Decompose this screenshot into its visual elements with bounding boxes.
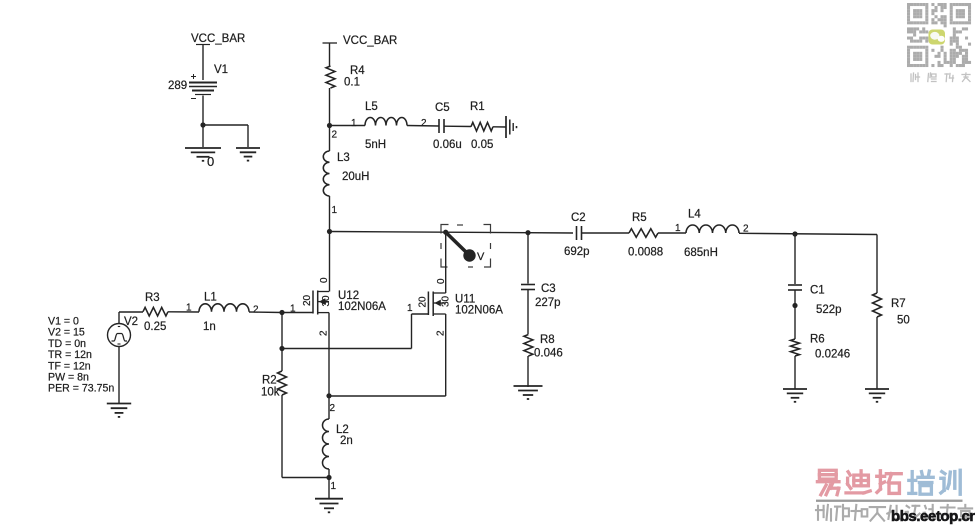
- ground (below R8): [514, 386, 543, 399]
- inductor L2: [323, 419, 330, 469]
- watermark WeChat icon: [929, 30, 946, 45]
- svg-text:V1: V1: [214, 64, 228, 76]
- capacitor C3: [521, 284, 535, 286]
- wire R5 to L4: [658, 232, 686, 234]
- wire V2 to corner: [118, 312, 120, 324]
- resistor R7: [873, 293, 882, 317]
- svg-text:C3: C3: [541, 283, 556, 295]
- svg-text:TR = 12n: TR = 12n: [48, 349, 92, 361]
- svg-text:PER = 73.75n: PER = 73.75n: [48, 383, 114, 395]
- svg-text:C2: C2: [571, 212, 586, 224]
- wire C1 to R6: [794, 291, 796, 306]
- ground (below R7): [865, 389, 889, 402]
- svg-text:0.25: 0.25: [144, 321, 166, 333]
- resistor R6: [791, 339, 800, 356]
- svg-text:692p: 692p: [564, 246, 590, 258]
- wire right ground drop: [247, 125, 249, 147]
- resistor R8: [524, 335, 533, 357]
- svg-text:R8: R8: [540, 334, 555, 346]
- svg-text:R6: R6: [810, 334, 825, 346]
- wire L1 to gate junction: [249, 311, 282, 314]
- transistor U11 (NMOS): [428, 292, 445, 317]
- svg-text:0.0088: 0.0088: [628, 247, 663, 259]
- junction rail/C3 branch: [525, 230, 530, 235]
- junction source node (U12/U11/L2): [326, 393, 331, 398]
- wire main rail left segment: [330, 232, 574, 234]
- wire rail to C1: [794, 234, 796, 284]
- watermark text: wei xin lian xi: [911, 73, 920, 82]
- svg-text:bbs.eetop.cn: bbs.eetop.cn: [891, 508, 975, 525]
- junction probe/U11 drain: [443, 230, 448, 235]
- wire U11 source: [445, 314, 447, 396]
- wire C5 to R1: [444, 125, 471, 127]
- battery V1 minus mark: [191, 98, 196, 100]
- svg-text:L4: L4: [688, 209, 701, 221]
- svg-text:2: 2: [436, 330, 447, 336]
- wire R1 to ground: [493, 126, 506, 128]
- value block: V2 pulse parameters: [48, 316, 114, 395]
- wire R7 to ground: [876, 317, 878, 389]
- svg-text:10k: 10k: [261, 387, 280, 399]
- svg-text:C1: C1: [810, 285, 825, 297]
- transistor U12 (NMOS): [313, 291, 329, 315]
- svg-text:VCC_BAR: VCC_BAR: [343, 35, 397, 47]
- svg-text:C5: C5: [435, 102, 450, 114]
- junction R4/L5/L3 node: [327, 123, 332, 128]
- wire VCC_BAR tick (R4 branch): [323, 42, 338, 44]
- wire VCC_BAR label to battery: [202, 45, 204, 81]
- svg-text:R1: R1: [470, 101, 485, 113]
- ground (right of R1, rotated): [506, 116, 517, 138]
- svg-text:V1 = 0: V1 = 0: [48, 316, 79, 328]
- junction battery/ground node: [200, 122, 205, 127]
- watermark logo char yi (pink): [817, 470, 839, 494]
- wire gate node down: [281, 313, 283, 349]
- svg-text:R4: R4: [350, 65, 365, 77]
- svg-text:VCC_BAR: VCC_BAR: [191, 33, 245, 45]
- capacitor C2: [576, 226, 578, 240]
- wire source node to L2: [328, 396, 330, 419]
- inductor L3: [323, 151, 329, 196]
- svg-text:R2: R2: [262, 375, 277, 387]
- watermark logo rule line: [816, 500, 963, 502]
- resistor R1: [471, 122, 493, 131]
- svg-text:289: 289: [168, 80, 187, 92]
- ground 0 (left of battery): [185, 148, 221, 161]
- wire rail to C3: [527, 233, 529, 284]
- inductor L4: [686, 225, 739, 233]
- wire gate net horizontal to U11: [282, 348, 412, 350]
- svg-text:R7: R7: [891, 298, 906, 310]
- resistor R4: [326, 66, 335, 88]
- svg-text:1: 1: [351, 118, 357, 129]
- svg-text:102N06A: 102N06A: [338, 301, 386, 313]
- svg-text:30: 30: [321, 295, 332, 307]
- svg-text:20: 20: [418, 296, 429, 308]
- svg-text:1: 1: [332, 205, 338, 216]
- wire L4 to right corner: [739, 233, 877, 234]
- junction C1/R6 node: [792, 303, 797, 308]
- svg-text:0.046: 0.046: [534, 348, 563, 360]
- svg-text:TF = 12n: TF = 12n: [48, 360, 91, 372]
- svg-text:227p: 227p: [535, 297, 561, 309]
- junction L2/R2/ground node: [326, 475, 331, 480]
- svg-text:1: 1: [407, 303, 413, 314]
- svg-text:V: V: [477, 251, 485, 263]
- svg-text:R3: R3: [145, 292, 160, 304]
- wire R2 to bottom corner: [281, 395, 283, 478]
- svg-text:1: 1: [331, 481, 337, 492]
- capacitor C1: [788, 284, 802, 286]
- junction gate/R2 node: [279, 346, 284, 351]
- wire U11 gate lead: [412, 313, 429, 315]
- svg-text:2: 2: [332, 130, 338, 141]
- junction gate node (U12): [279, 310, 284, 315]
- wire battery to junction: [202, 96, 204, 126]
- wire C2 to R5: [582, 232, 630, 234]
- probe selection box (dashed corners): [441, 225, 491, 268]
- svg-text:0.05: 0.05: [471, 139, 493, 151]
- resistor R2: [278, 371, 287, 395]
- wire U11 drain: [445, 232, 447, 293]
- svg-text:2: 2: [253, 305, 259, 316]
- svg-text:5nH: 5nH: [365, 139, 386, 151]
- resistor R5: [629, 229, 658, 238]
- svg-text:1: 1: [290, 304, 296, 315]
- svg-text:L1: L1: [204, 292, 217, 304]
- ground (right of battery): [236, 148, 260, 161]
- wire L2 to bottom junction: [328, 469, 330, 478]
- wire junction to R6: [794, 306, 796, 340]
- battery V1: [189, 83, 217, 95]
- ground (below L2): [315, 499, 343, 513]
- watermark slogan row (gray): [816, 505, 831, 521]
- wire VCC_BAR to R4: [329, 43, 331, 66]
- watermark logo char tuo (pink): [877, 471, 901, 494]
- svg-text:1: 1: [186, 303, 192, 314]
- svg-text:50: 50: [897, 315, 910, 327]
- svg-text:L5: L5: [365, 101, 378, 113]
- resistor R3: [143, 307, 168, 316]
- wire junction to right ground (horiz): [203, 124, 248, 126]
- wire junction to L5: [330, 125, 366, 127]
- voltage probe marker: [447, 233, 467, 252]
- svg-text:0.0246: 0.0246: [815, 349, 850, 361]
- svg-text:L3: L3: [337, 152, 350, 164]
- svg-text:2: 2: [319, 330, 330, 336]
- svg-text:102N06A: 102N06A: [455, 305, 503, 317]
- svg-text:30: 30: [441, 295, 452, 307]
- wire C3 to R8: [527, 290, 529, 334]
- junction rail/L3/U12 drain: [327, 229, 332, 234]
- wire U12 source: [328, 313, 330, 396]
- wire R2 corner to L2 junction: [282, 477, 329, 479]
- wire R8 to ground: [527, 356, 529, 387]
- svg-text:1: 1: [675, 223, 681, 234]
- wire corner to R7: [876, 235, 878, 294]
- wire U12 drain: [329, 232, 331, 292]
- wire U12 gate lead: [282, 312, 313, 314]
- wire junction to R2: [281, 349, 283, 372]
- svg-text:2n: 2n: [340, 435, 353, 447]
- svg-text:20: 20: [302, 294, 313, 306]
- watermark logo char pei (blue): [909, 471, 933, 494]
- decorative watermark QR code: [907, 3, 971, 67]
- svg-text:522p: 522p: [816, 304, 842, 316]
- ground (below R6): [783, 389, 807, 402]
- wire R3 to L1: [168, 311, 199, 313]
- wire L3 to rail: [329, 196, 331, 232]
- svg-text:0: 0: [207, 154, 214, 169]
- svg-text:2: 2: [421, 118, 427, 129]
- svg-text:PW = 8n: PW = 8n: [48, 372, 89, 384]
- wire gate net riser (U11): [411, 314, 413, 349]
- wire L5 to C5: [407, 125, 439, 128]
- wire R4 to junction: [329, 88, 331, 126]
- wire V2 corner to R3: [119, 311, 143, 313]
- capacitor C5: [438, 119, 440, 133]
- ground (below V2): [107, 404, 131, 417]
- wire junction to left ground: [202, 125, 204, 147]
- wire junction to L3: [329, 126, 331, 152]
- svg-text:20uH: 20uH: [342, 171, 370, 183]
- svg-text:R5: R5: [632, 212, 647, 224]
- svg-text:V2 = 15: V2 = 15: [48, 327, 85, 339]
- svg-text:0.06u: 0.06u: [433, 139, 462, 151]
- battery V1 plus mark: [191, 74, 196, 79]
- wire VCC_BAR tick under label: [196, 44, 210, 46]
- wire R6 to ground: [794, 356, 796, 389]
- watermark logo char xun (blue): [941, 470, 960, 494]
- svg-text:0.1: 0.1: [344, 77, 360, 89]
- wire U11 source return: [329, 395, 446, 397]
- svg-text:2: 2: [330, 403, 336, 414]
- inductor L1: [199, 304, 249, 312]
- wire V2 to ground: [118, 347, 120, 404]
- inductor L5: [365, 118, 407, 126]
- svg-text:1n: 1n: [203, 321, 216, 333]
- svg-text:0: 0: [319, 277, 330, 283]
- svg-text:685nH: 685nH: [684, 247, 718, 259]
- svg-text:TD = 0n: TD = 0n: [48, 338, 86, 350]
- watermark logo char di (pink): [846, 471, 870, 493]
- pulse source V2: [108, 324, 131, 347]
- wire bottom junction to ground: [328, 478, 330, 499]
- svg-text:0: 0: [436, 278, 447, 284]
- junction rail/C1 branch: [792, 231, 797, 236]
